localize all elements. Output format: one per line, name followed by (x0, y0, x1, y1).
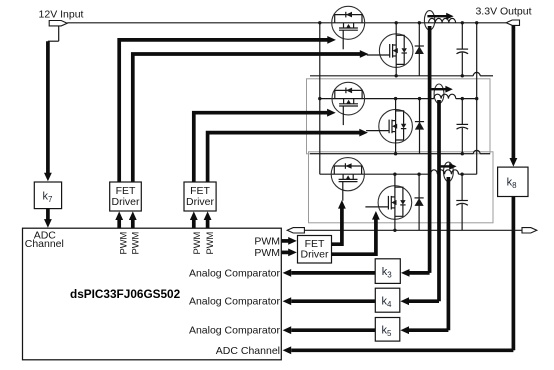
wire Q4 vertical (395, 99, 397, 154)
pin label Analog Comparator 1 (189, 267, 281, 279)
svg-text:3.3V Output: 3.3V Output (475, 6, 531, 18)
node Q6 source-ground (393, 229, 396, 232)
node Q2 drain (395, 21, 398, 24)
wire driver3 to Q6 gate (332, 211, 380, 254)
svg-text:Driver: Driver (301, 249, 330, 261)
diode D1 phase1 (415, 23, 424, 76)
microcontroller dsPIC33FJ06GS502 (23, 228, 282, 360)
svg-text:dsPIC33FJ06GS502: dsPIC33FJ06GS502 (70, 287, 181, 301)
node 12V feed tap (318, 21, 321, 24)
FET driver U3 (298, 236, 332, 264)
inductor L1 phase1 (429, 18, 456, 22)
wire PWM to driver1 b (129, 211, 137, 231)
transistor Q4 low-side MOSFET phase2 (366, 109, 412, 143)
svg-text:Channel: Channel (25, 238, 64, 250)
3.3V Output label (475, 6, 531, 18)
wire phase1 switch-node rail (0, 0, 1, 1)
wire K3 to comparator 1 (283, 269, 376, 277)
pin label PWM rotated 4 (205, 232, 215, 255)
node Q4 source-ground (394, 152, 397, 155)
wire driver3 to Q5 gate (332, 200, 346, 244)
wire 12V top rail (67, 22, 506, 24)
svg-text:Analog Comparator: Analog Comparator (189, 296, 281, 308)
wire K5 to comparator 3 (283, 326, 376, 334)
node D3 top (417, 173, 420, 176)
inductor L2 phase2 (434, 94, 456, 98)
node C1 bottom (461, 74, 464, 77)
wire 12V feed to lower phases (319, 23, 321, 174)
svg-text:PWM: PWM (205, 232, 215, 255)
svg-text:Driver: Driver (112, 196, 141, 208)
svg-text:Analog Comparator: Analog Comparator (189, 267, 281, 279)
current sensor phase2 (434, 84, 444, 103)
label dsPIC part number (70, 287, 181, 301)
pin label PWM rotated 3 (192, 232, 202, 255)
wire 12V drop to K7 (44, 26, 59, 182)
wire K8 to ADC channel (512, 197, 516, 351)
current arrow phase2 (431, 86, 453, 93)
transistor Q6 low-side MOSFET phase3 (365, 186, 411, 220)
wire phase2 rail (320, 98, 434, 100)
wire K8 row to ADC channel input (283, 346, 514, 354)
pin label Analog Comparator 2 (189, 296, 281, 308)
wire K4 to comparator 2 (283, 297, 376, 305)
pin label PWM rotated 1 (119, 232, 129, 255)
wire join vertical (phase outputs to 3.3V rail) (476, 23, 478, 174)
wire sense phase1 to K3 (401, 26, 430, 277)
svg-text:PWM: PWM (119, 232, 129, 255)
svg-text:12V Input: 12V Input (39, 9, 84, 21)
node Q6 drain (393, 173, 396, 176)
wire PWM to driver2 a (190, 211, 198, 231)
wire PWM1L drive (FET driver 1 to Q2 gate) (133, 50, 369, 182)
wire PWM2L drive (FET driver 2 to Q4 gate) (208, 129, 368, 183)
connector ground right (522, 228, 537, 233)
gain block K3 (375, 259, 400, 284)
wire phase2 inductor to join (456, 98, 477, 100)
pin label Analog Comparator 3 (189, 325, 281, 337)
gain block K5 (375, 318, 400, 342)
svg-text:PWM: PWM (192, 232, 202, 255)
12V Input label (39, 9, 84, 21)
connector 12V input (49, 21, 67, 26)
pin label ADC Channel right (216, 345, 280, 357)
current arrow phase3 (441, 163, 457, 170)
gain block K7 (34, 182, 61, 209)
svg-text:PWM: PWM (130, 232, 140, 255)
pin label PWM right 1 (254, 235, 280, 247)
node C2 top (461, 97, 464, 100)
node Q4 drain (394, 97, 397, 100)
gain block K8 (498, 167, 528, 196)
diode D3 phase3 (415, 174, 424, 230)
node phase2 join (475, 97, 478, 100)
connector 3.3V output (506, 20, 519, 25)
FET driver U1 (110, 182, 142, 211)
wire PWM to driver2 b (204, 211, 212, 231)
current sensor phase3 (444, 162, 454, 181)
current sensor phase1 (424, 11, 434, 30)
wire PWM to driver3 a (281, 237, 297, 245)
wire PWM to driver1 a (115, 211, 123, 231)
wire phase3 rail (320, 173, 431, 175)
phase 3 block boundary (309, 152, 494, 223)
wire Q6 vertical (394, 174, 396, 230)
node C3 top (460, 173, 463, 176)
svg-text:PWM: PWM (254, 235, 280, 247)
wire Q2 drain/source vertical (395, 23, 397, 76)
wire PWM2H drive (FET driver 2 to Q3 gate) (194, 109, 336, 183)
transistor Q2 low-side MOSFET phase1 (367, 34, 413, 68)
diode D2 phase2 (415, 99, 424, 154)
pin label PWM rotated 2 (130, 232, 140, 255)
wire sense phase3 to K5 (400, 177, 448, 334)
connector ground left (287, 228, 304, 233)
pin label PWM right 2 (254, 247, 280, 259)
transistor Q1 high-side MOSFET phase1 (332, 6, 365, 49)
inductor L3 phase3 (431, 170, 459, 174)
node phase2 rail tap (318, 97, 321, 100)
phase 2 block boundary (307, 79, 491, 154)
transistor Q5 high-side MOSFET phase3 (331, 158, 364, 201)
capacitor C3 phase3 (456, 174, 468, 230)
node phase outputs join top rail (475, 21, 478, 24)
node Q2 source-ground (395, 74, 398, 77)
capacitor C1 phase1 (457, 23, 469, 76)
capacitor C2 phase2 (457, 99, 469, 154)
wire phase2 ground rail (310, 150, 490, 153)
wire sense phase2 to K4 (400, 100, 439, 305)
svg-text:PWM: PWM (254, 247, 280, 259)
label ADC Channel top-left (25, 229, 64, 250)
transistor Q3 high-side MOSFET phase2 (332, 82, 365, 125)
current arrow phase1 (427, 13, 453, 20)
node C1 top (461, 21, 464, 24)
node D1 top (418, 21, 421, 24)
svg-text:Driver: Driver (186, 196, 215, 208)
node D2 top (418, 97, 421, 100)
wire phase3 inductor to join (459, 173, 477, 175)
svg-text:Analog Comparator: Analog Comparator (189, 325, 281, 337)
node C2 bottom (461, 152, 464, 155)
svg-text:ADC Channel: ADC Channel (216, 345, 280, 357)
ground rail (304, 229, 522, 231)
wire PWM1H drive (FET driver 1 to Q1 gate) (119, 36, 336, 182)
wire K7 to ADC channel (44, 209, 52, 228)
wire phase1 ground rail (310, 72, 493, 75)
wire output to K8 (510, 25, 518, 166)
FET driver U2 (184, 182, 216, 211)
gain block K4 (375, 288, 400, 312)
wire PWM to driver3 b (281, 249, 297, 257)
